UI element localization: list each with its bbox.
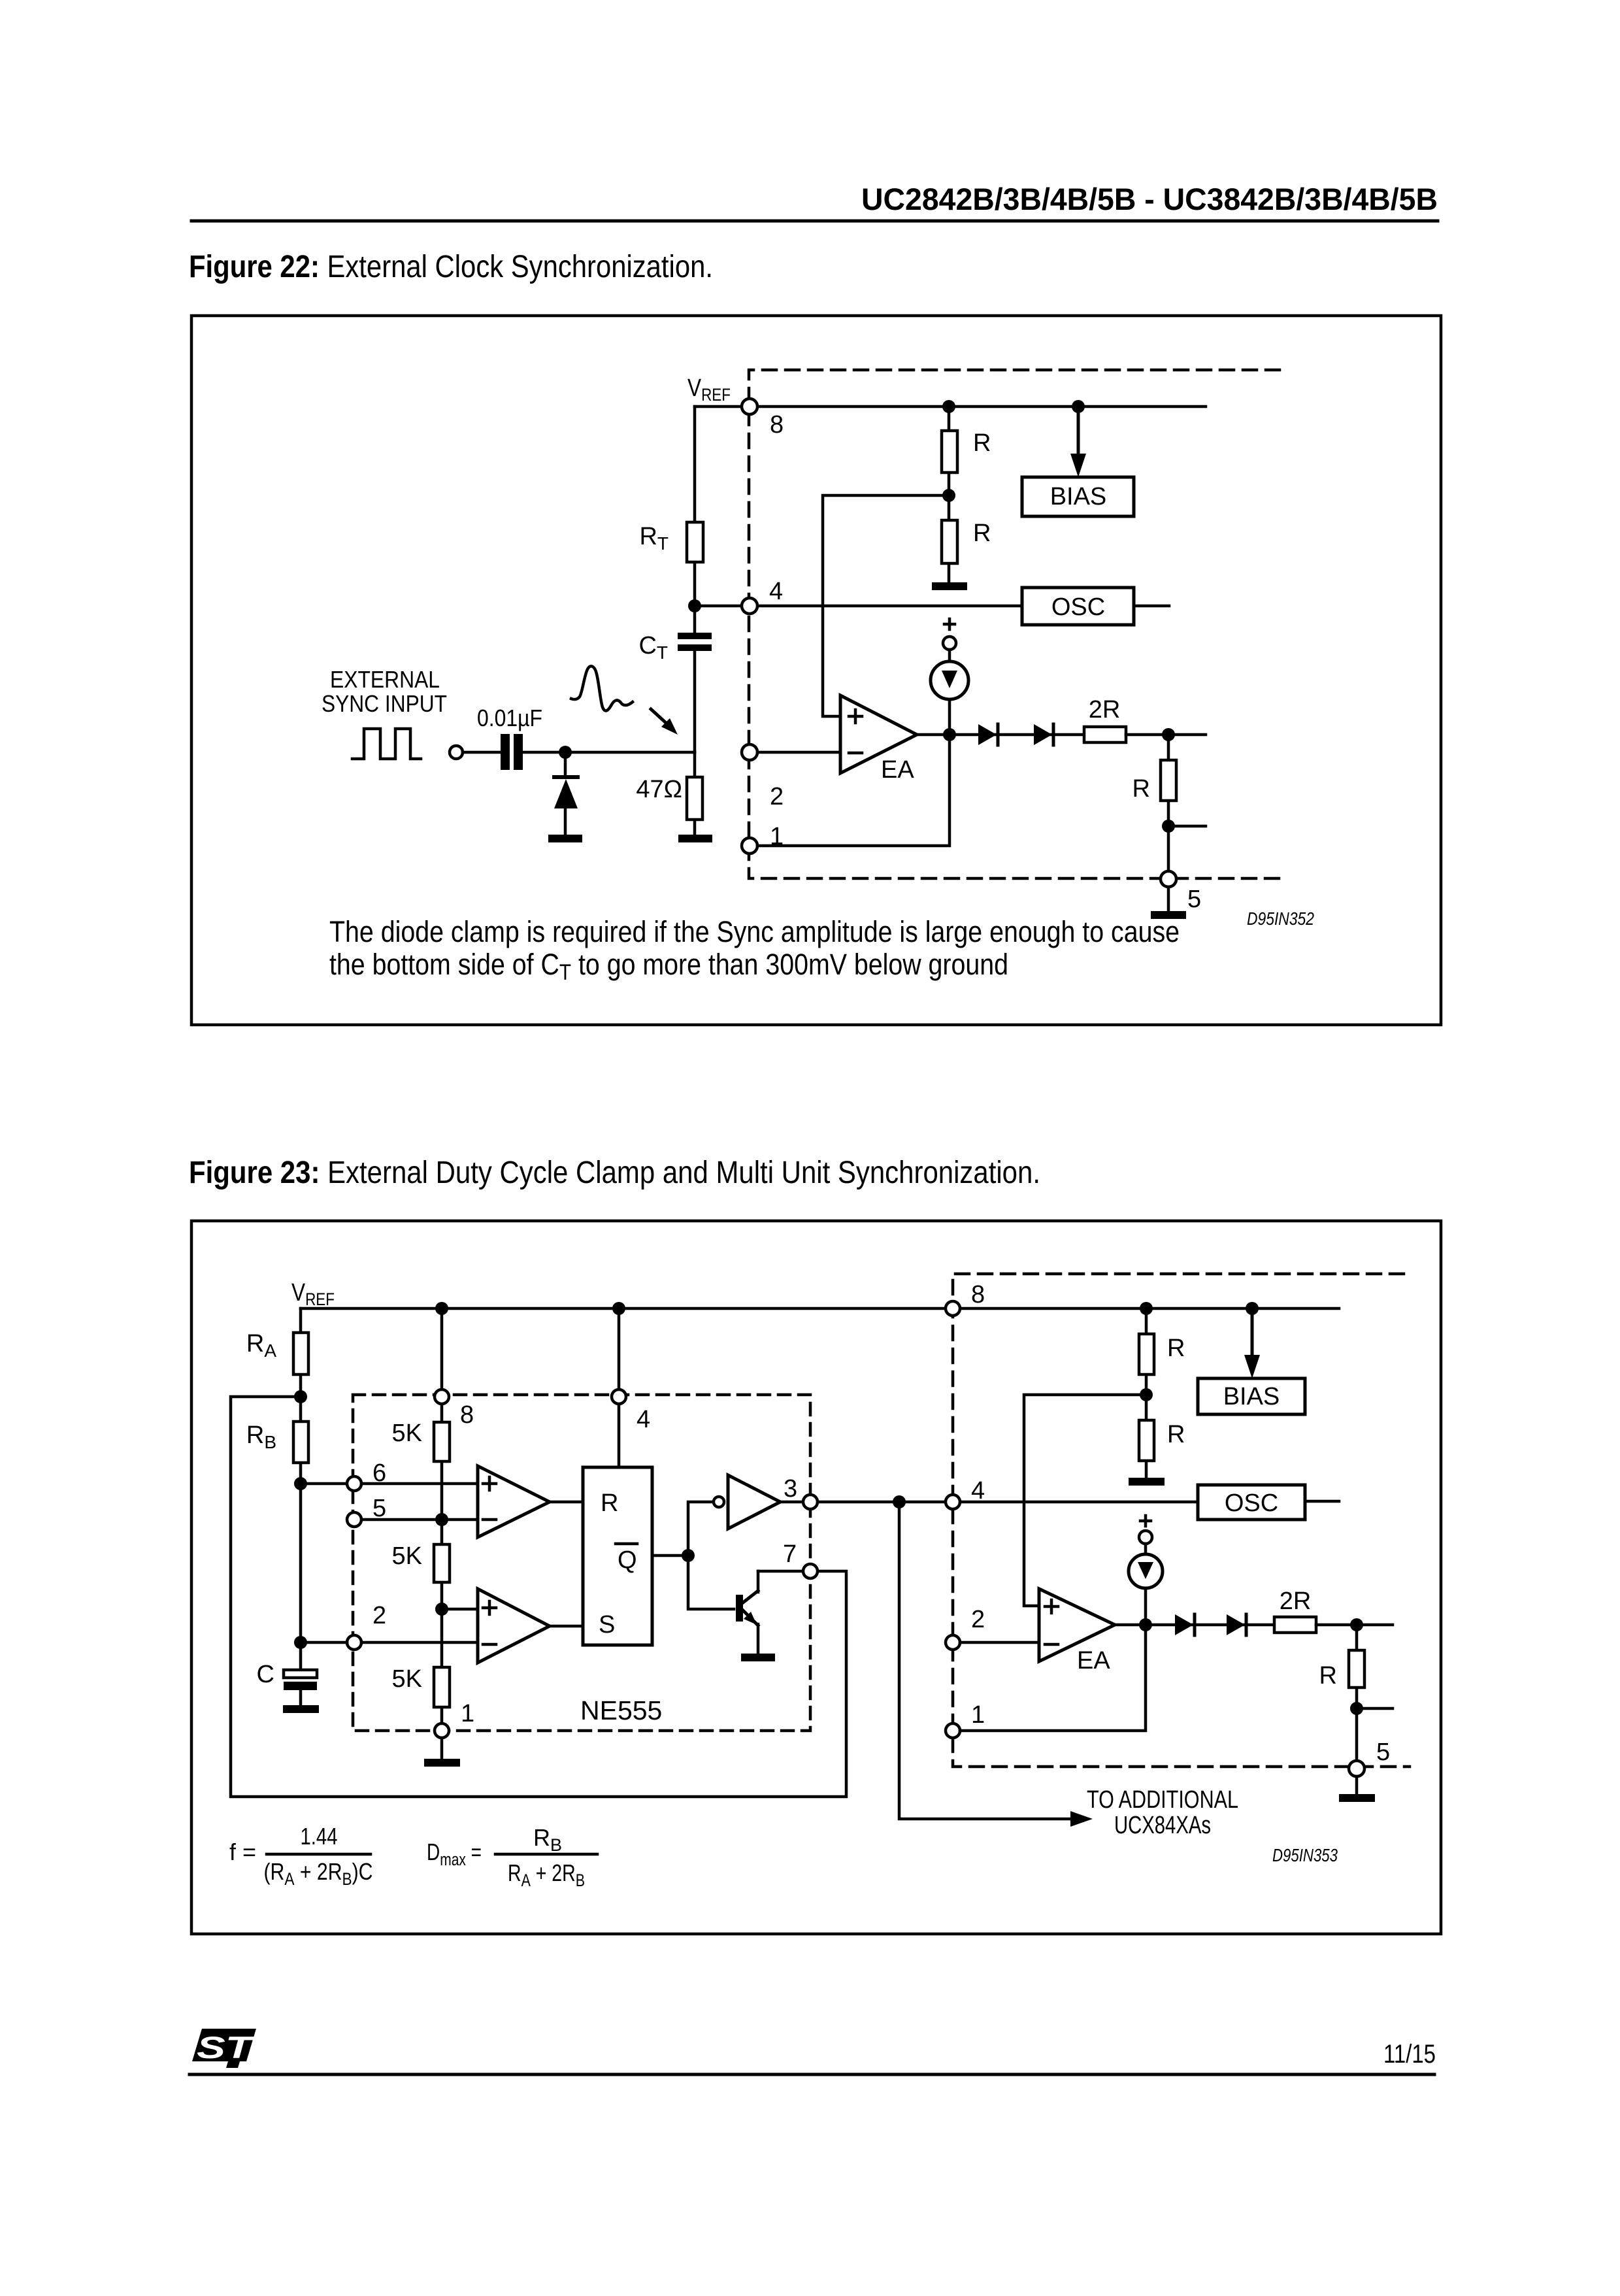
wire comp2 to S input	[550, 1625, 583, 1628]
wire OSC output stub	[1134, 605, 1169, 608]
svg-text:5: 5	[372, 1495, 386, 1522]
resistor 2R	[1084, 727, 1126, 742]
svg-text:Dmax =: Dmax =	[427, 1838, 482, 1869]
figure 23 border frame	[191, 1221, 1441, 1934]
wire pin4 to OSC	[695, 605, 1022, 608]
pin 8 (UC)	[946, 1301, 960, 1316]
flip-flop box	[583, 1467, 652, 1645]
wire VREF rail top	[695, 405, 1206, 408]
svg-text:BIAS: BIAS	[1223, 1383, 1280, 1410]
ST logo	[192, 2029, 256, 2068]
svg-text:R: R	[601, 1489, 618, 1517]
junction rail-pin4	[612, 1302, 625, 1315]
svg-text:RB: RB	[246, 1422, 276, 1452]
junction R bottom node	[1162, 820, 1175, 833]
svg-text:UCX84XAs: UCX84XAs	[1114, 1812, 1211, 1839]
svg-text:2: 2	[971, 1606, 985, 1633]
ground (diode)	[548, 835, 582, 842]
resistor R upper (fig23)	[1139, 1334, 1154, 1374]
svg-text:3: 3	[784, 1475, 797, 1503]
pin 2 (NE555)	[347, 1635, 361, 1650]
svg-text:S: S	[599, 1611, 615, 1639]
pin 7 (NE555)	[803, 1564, 818, 1578]
diode D2 (fig23)	[1227, 1614, 1245, 1635]
svg-text:D95IN352: D95IN352	[1247, 908, 1314, 929]
svg-text:D95IN353: D95IN353	[1272, 1845, 1338, 1865]
wire EA feedback from R divider	[823, 495, 949, 716]
svg-text:1: 1	[461, 1700, 474, 1727]
junction top rail R	[942, 400, 955, 413]
wire discharge feedback loop	[231, 1397, 846, 1797]
pin 4 (NE555)	[618, 1308, 621, 1467]
svg-text:R: R	[973, 429, 991, 457]
svg-text:TO ADDITIONAL: TO ADDITIONAL	[1087, 1786, 1238, 1814]
figure 22 border frame	[191, 316, 1441, 1025]
wire 2R to node	[1126, 733, 1206, 737]
svg-text:RA: RA	[246, 1330, 276, 1361]
wire pin1 to ground	[440, 1738, 444, 1759]
wire cap to sync node	[523, 751, 695, 754]
arrow to BIAS (fig23)	[1251, 1308, 1254, 1356]
svg-text:(RA + 2RB)C: (RA + 2RB)C	[264, 1858, 373, 1889]
junction R divider	[942, 489, 955, 502]
svg-text:R: R	[1167, 1335, 1185, 1362]
wire pin2 to EA inverting input	[757, 751, 840, 754]
svg-text:NE555: NE555	[580, 1695, 662, 1725]
wire CT to sync node	[693, 651, 697, 752]
junction rail-R	[1140, 1302, 1153, 1315]
wire R divider chain	[948, 407, 951, 582]
svg-text:Figure 22: External Clock Sync: Figure 22: External Clock Synchronizatio…	[189, 250, 713, 284]
pin 4 (UC)	[946, 1495, 960, 1509]
svg-text:UC2842B/3B/4B/5B - UC3842B/3B/: UC2842B/3B/4B/5B - UC3842B/3B/4B/5B	[861, 182, 1438, 216]
resistor RB	[299, 1397, 303, 1484]
pin 2 (UC)	[946, 1635, 960, 1650]
svg-text:47Ω: 47Ω	[636, 776, 682, 803]
junction rail-5K	[435, 1302, 448, 1315]
svg-text:5: 5	[1376, 1739, 1390, 1766]
junction sync distribution	[893, 1495, 906, 1508]
resistor R lower	[942, 520, 957, 563]
wire collector to pin7	[758, 1570, 818, 1573]
svg-text:2: 2	[770, 783, 784, 810]
svg-text:R: R	[1167, 1421, 1185, 1448]
ground (R divider fig23)	[1129, 1478, 1165, 1486]
wire R divider chain (fig23)	[1145, 1308, 1148, 1478]
svg-text:Q: Q	[618, 1546, 637, 1574]
wire pin5 to ground (fig23)	[1355, 1776, 1359, 1794]
svg-text:R: R	[1319, 1662, 1337, 1689]
junction 5K-comp2	[435, 1603, 448, 1616]
svg-text:EA: EA	[881, 756, 914, 784]
ground (pin5)	[1151, 911, 1186, 919]
diode D1	[978, 724, 997, 745]
ground (transistor)	[741, 1654, 775, 1661]
svg-text:f =: f =	[229, 1838, 256, 1865]
arrow to sync node	[651, 709, 666, 723]
svg-text:2R: 2R	[1280, 1588, 1312, 1615]
pin 2	[742, 744, 757, 760]
wire to additional devices	[899, 1502, 1072, 1819]
pin 6 (NE555)	[347, 1476, 361, 1491]
svg-text:CT: CT	[638, 632, 668, 663]
resistor 5K top	[434, 1422, 450, 1461]
wire Qbar to buffer	[688, 1502, 714, 1556]
wire node to pin6	[301, 1482, 347, 1486]
svg-text:EXTERNAL: EXTERNAL	[330, 666, 440, 693]
pin 3 (NE555)	[803, 1495, 818, 1509]
resistor R output (fig23)	[1355, 1625, 1359, 1761]
current source (fig23)	[1140, 1516, 1151, 1526]
ground (pin1 NE555)	[424, 1759, 460, 1767]
svg-text:Figure 23: External Duty Cycle: Figure 23: External Duty Cycle Clamp and…	[189, 1156, 1040, 1190]
arrow to BIAS	[1077, 407, 1080, 455]
block BIAS	[1022, 477, 1134, 516]
svg-text:1: 1	[971, 1701, 985, 1729]
junction C node	[294, 1636, 307, 1649]
svg-text:2: 2	[372, 1602, 386, 1629]
svg-text:SYNC INPUT: SYNC INPUT	[322, 690, 447, 717]
svg-text:5K: 5K	[392, 1542, 422, 1570]
wire 2R to node (fig23)	[1316, 1623, 1393, 1627]
transistor discharge	[736, 1595, 743, 1622]
wire pin6 to comparator	[361, 1482, 478, 1486]
comparator upper (NE555)	[478, 1466, 550, 1537]
resistor R lower (fig23)	[1139, 1420, 1154, 1461]
input terminal	[450, 746, 463, 759]
pin 8 (NE555)	[435, 1389, 449, 1404]
NE555 dashed boundary	[353, 1395, 810, 1731]
diode clamp	[564, 752, 567, 835]
svg-text:R: R	[973, 520, 991, 547]
pin 1 (NE555)	[435, 1723, 449, 1738]
wire 5K chain	[440, 1308, 444, 1723]
pin 5 (NE555)	[347, 1512, 361, 1527]
wire node stub (fig23)	[1357, 1707, 1393, 1710]
wire input to coupling cap	[463, 751, 501, 754]
svg-text:4: 4	[636, 1406, 650, 1433]
ground (R divider)	[932, 582, 967, 590]
junction RA-RB node	[294, 1390, 307, 1403]
svg-text:BIAS: BIAS	[1050, 483, 1107, 510]
ground (47ohm)	[678, 835, 712, 842]
wire OSC output stub (fig23)	[1305, 1500, 1339, 1503]
ground (pin5 fig23)	[1339, 1794, 1375, 1802]
ground (C)	[283, 1705, 319, 1713]
pin 8	[742, 399, 757, 414]
wire VREF rail (fig23)	[301, 1307, 1339, 1310]
junction diode node	[559, 746, 572, 759]
resistor R upper	[942, 431, 957, 473]
junction top rail BIAS	[1072, 400, 1085, 413]
header rule	[191, 220, 1438, 223]
resistor 5K bottom	[434, 1667, 450, 1707]
svg-text:5: 5	[1187, 886, 1201, 913]
op-amp EA (fig22)	[840, 695, 917, 773]
buffer triangle	[728, 1475, 780, 1529]
pin 5 (UC)	[1349, 1761, 1364, 1776]
junction EA output	[943, 728, 956, 741]
comparator lower (NE555)	[478, 1589, 550, 1663]
svg-text:the bottom side of CT to go mo: the bottom side of CT to go more than 30…	[329, 948, 1008, 985]
current source (fig22)	[944, 619, 955, 629]
pin 4	[742, 598, 757, 614]
junction R bottom node (fig23)	[1350, 1702, 1363, 1715]
svg-text:8: 8	[770, 411, 784, 439]
capacitor CT	[678, 633, 712, 639]
IC dashed boundary (fig23)	[953, 1274, 1410, 1767]
block BIAS (fig23)	[1198, 1378, 1305, 1414]
svg-text:7: 7	[783, 1540, 797, 1568]
svg-text:2R: 2R	[1089, 696, 1121, 724]
resistor 2R (fig23)	[1274, 1617, 1316, 1633]
wire pin5 to ground	[1167, 887, 1170, 911]
wire pin1 to EA output node	[757, 735, 950, 846]
svg-text:The diode clamp is required if: The diode clamp is required if the Sync …	[329, 915, 1180, 948]
wire pin3 to UC pin4	[818, 1501, 946, 1504]
svg-text:8: 8	[460, 1401, 474, 1429]
pin 1 (UC)	[946, 1723, 960, 1738]
svg-text:ST: ST	[197, 2030, 256, 2065]
capacitor C	[299, 1642, 303, 1669]
wire Qbar output	[652, 1554, 688, 1557]
svg-text:VREF: VREF	[687, 374, 731, 405]
wire pin1 to EA output (fig23)	[960, 1625, 1146, 1731]
junction EA output (fig23)	[1139, 1618, 1152, 1631]
svg-text:RT: RT	[639, 523, 669, 554]
svg-text:RA + 2RB: RA + 2RB	[508, 1859, 585, 1890]
buffer inverter bubble	[714, 1497, 724, 1507]
svg-text:EA: EA	[1077, 1647, 1110, 1674]
svg-text:4: 4	[971, 1477, 985, 1505]
svg-text:OSC: OSC	[1225, 1489, 1278, 1517]
diode D2	[1034, 724, 1052, 745]
wire comp1 to R input	[550, 1501, 583, 1504]
junction rail-BIAS	[1246, 1302, 1259, 1315]
svg-text:0.01µF: 0.01µF	[477, 705, 542, 731]
wire node down to pin2 node	[299, 1484, 303, 1642]
svg-text:RB: RB	[533, 1824, 562, 1855]
wire VREF vertical through RT to CT	[693, 407, 697, 633]
diode D1 (fig23)	[1175, 1614, 1193, 1635]
junction pin4 node	[688, 599, 701, 612]
junction 2R node (fig23)	[1350, 1618, 1363, 1631]
svg-text:4: 4	[769, 578, 783, 605]
svg-text:5K: 5K	[392, 1420, 422, 1447]
svg-text:OSC: OSC	[1051, 593, 1105, 621]
block OSC (fig23)	[1198, 1485, 1305, 1520]
resistor RT	[687, 522, 703, 562]
square wave symbol	[352, 729, 421, 759]
wire EA output through diodes (fig23)	[1115, 1623, 1274, 1627]
pin 5	[1161, 871, 1176, 887]
wire pin2 to EA (fig23)	[960, 1641, 1039, 1644]
wire buffer to pin3	[780, 1501, 803, 1504]
wire pin4 to OSC (fig23)	[960, 1501, 1198, 1504]
wire pin5 to comparator	[361, 1518, 478, 1522]
junction 5K-pin5	[435, 1513, 448, 1526]
wire pin2 node to comparator2	[301, 1641, 478, 1644]
svg-text:C: C	[257, 1661, 274, 1688]
junction Qbar	[682, 1549, 695, 1562]
op-amp EA (fig23)	[1039, 1589, 1115, 1661]
resistor RA	[299, 1308, 303, 1397]
wire EA output through diodes	[917, 733, 1084, 737]
pin 1	[742, 838, 757, 854]
svg-text:1.44: 1.44	[301, 1823, 338, 1850]
wire EA feedback (fig23)	[1024, 1395, 1146, 1606]
svg-text:8: 8	[971, 1281, 985, 1308]
capacitor 0.01uF	[501, 734, 510, 770]
svg-text:R: R	[1132, 775, 1150, 803]
resistor 47ohm	[693, 752, 697, 835]
block OSC	[1022, 588, 1134, 625]
resistor 5K middle	[434, 1544, 450, 1582]
svg-text:11/15: 11/15	[1383, 2040, 1436, 2069]
IC dashed boundary (fig22)	[749, 370, 1280, 878]
wire node stub	[1168, 825, 1206, 828]
wire junction to comparator2 plus	[442, 1608, 478, 1611]
junction 2R node	[1162, 728, 1175, 741]
junction R divider (fig23)	[1140, 1388, 1153, 1401]
wire Qbar to transistor base	[688, 1556, 734, 1609]
svg-text:5K: 5K	[392, 1665, 422, 1693]
sync pulse waveform	[571, 666, 633, 710]
svg-text:VREF: VREF	[291, 1279, 335, 1309]
resistor R output	[1167, 735, 1170, 871]
junction RB-pin6 node	[294, 1477, 307, 1490]
footer rule	[190, 2073, 1434, 2076]
